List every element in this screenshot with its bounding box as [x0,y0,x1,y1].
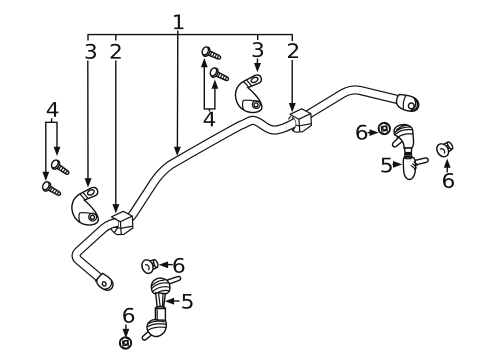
bracket 3 left [72,187,98,225]
bushing 2 left [76,211,133,277]
callout 4 left bracket [46,118,57,172]
lower boot [403,157,415,179]
bracket 3 right [235,75,261,113]
callout 3 right label [253,42,263,57]
nut 6 lower-left [120,337,132,349]
bottom stud [142,330,154,341]
bushing 2 right [76,90,402,278]
callout 1 label [174,15,183,30]
neck [405,148,412,154]
top stud [392,136,403,147]
callout 3 left label [86,44,96,59]
nut 6 right-lower [434,139,455,159]
callout 2 right leader [291,60,293,104]
callout 6 bottom-b label [123,308,134,323]
cylinder [155,309,165,322]
neck [156,293,166,308]
callout 1 leader [176,31,178,148]
callout 2 left label [111,44,121,59]
left bar eyelet [94,272,115,293]
callout 6 bottom-b leader [125,325,127,330]
left bar eyelet hole [102,281,107,287]
callout 6 right-top label [356,125,367,140]
callout 4 middle label [204,112,216,127]
callout 2 left leader [115,61,117,205]
link 5 bottom [142,276,180,340]
bolt 4 left upper [50,159,72,178]
top stud [165,276,180,284]
link 5 right [392,124,428,179]
callout 4 middle bracket [204,67,215,112]
bottom boot [147,320,166,337]
bolt 4 middle upper [201,46,223,63]
callout 5 bottom leader [174,300,180,302]
callout 2 right label [288,43,298,58]
collar [405,154,412,157]
callout 6 bottom-a label [173,258,184,273]
callout 6 right-top leader [368,132,371,134]
right bar eyelet [395,93,421,113]
nut 6 right-top [378,123,390,135]
callout 3 right leader [256,59,258,64]
callout 6 bottom-a leader [168,264,173,266]
callout 3 left leader [87,61,89,179]
top boot [151,278,170,295]
nut 6 upper near lower link [140,256,160,274]
bolt 4 middle lower [209,67,231,84]
stabilizer bar inner white [76,90,402,278]
callout 4 left label [47,102,59,117]
callout 5 right leader [393,163,395,165]
stabilizer bar outer outline [76,90,402,278]
callout 6 right-bottom label [443,173,454,188]
top boot [394,124,414,148]
lower stud [414,158,428,165]
right bar eyelet hole [408,103,414,109]
callout 5 right label [381,158,391,173]
callout top rail [88,35,292,41]
bolt 4 left lower [41,180,63,198]
mid rim [155,307,165,311]
callout 6 right-bottom leader [446,168,448,173]
callout 5 bottom label [182,294,192,309]
